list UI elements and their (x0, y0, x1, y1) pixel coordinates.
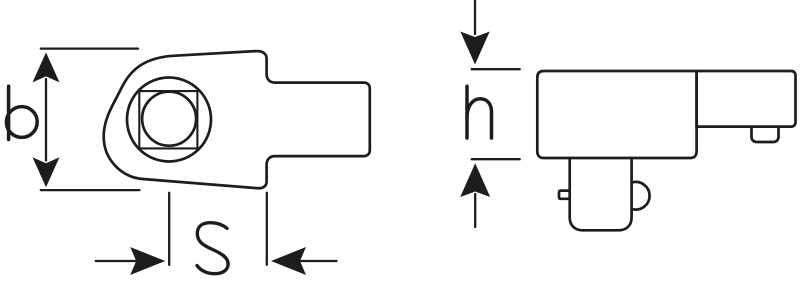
wrench insert head outline (front view) (104, 51, 370, 188)
dimension S: right arrowhead (points left) (271, 247, 306, 275)
letter S (197, 223, 228, 274)
dimension S: left arrowhead (points right) (130, 247, 165, 275)
dimension h: top dimension line (474, 0, 476, 34)
side view: rectangular tang (697, 71, 796, 127)
dimension h: upper extension line (472, 68, 520, 70)
dimension h: bottom arrowhead (points up) (460, 163, 490, 197)
side view: ball detent (632, 182, 650, 210)
dimension S: right extension line (266, 193, 268, 265)
square drive opening (139, 91, 197, 148)
dimension b: vertical dimension line (45, 79, 47, 161)
dimension b: top extension line (41, 47, 138, 49)
dimension b: lower arrowhead (33, 157, 60, 187)
dimension b: bottom extension line (41, 189, 140, 191)
side view: head body (537, 71, 696, 158)
letter b (6, 86, 37, 139)
dimension b: upper arrowhead (33, 52, 60, 82)
drive boss circle (127, 78, 211, 162)
letter h (467, 86, 492, 138)
dimension S: left arrow line (96, 260, 136, 262)
dimension h: lower extension line (472, 158, 520, 160)
dimension S: left extension line (168, 193, 170, 265)
side view: release pin (559, 191, 569, 199)
inner bore circle (142, 92, 196, 146)
dimension h: top arrowhead (points down) (460, 32, 489, 65)
side view: tab under tang (752, 127, 779, 142)
side view: square drive shank (570, 158, 632, 230)
dimension S: right arrow line (301, 260, 337, 262)
dimension h: bottom dimension line (474, 194, 476, 227)
